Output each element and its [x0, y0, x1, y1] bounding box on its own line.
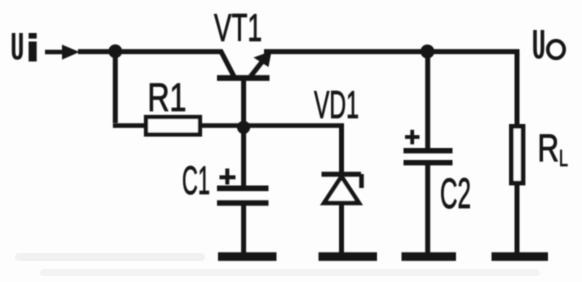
wire: R1 left stub — [113, 123, 147, 128]
node junction dot (base node) — [237, 121, 250, 134]
wire: VD1 to ground — [339, 203, 344, 253]
svg-text:L: L — [559, 145, 568, 171]
ground bar (VD1) — [319, 252, 378, 261]
wire: top left from arrow to transistor collector — [78, 49, 223, 54]
svg-text:VT1: VT1 — [214, 7, 262, 50]
resistor RL — [511, 126, 523, 183]
wire: output corner down to RL — [515, 49, 520, 126]
emitter slant — [251, 60, 264, 77]
anode triangle — [324, 177, 359, 204]
node junction dot (output node) — [420, 45, 434, 59]
wire: base node to VD1 branch — [244, 123, 344, 128]
wire: C2 drop from output node — [425, 52, 430, 151]
wire: C1 drop from base node to C1 top plate — [241, 127, 246, 187]
svg-text:R1: R1 — [148, 76, 187, 120]
input arrow — [45, 50, 62, 55]
wire: RL to ground — [515, 183, 520, 253]
collector slant — [221, 51, 235, 77]
base lead down — [241, 80, 246, 127]
capacitor C2 — [404, 151, 453, 163]
node junction dot (input node) — [108, 44, 122, 58]
plus sign C1 — [220, 169, 236, 185]
svg-text:C2: C2 — [440, 170, 471, 218]
wire: R1 right stub to base node — [200, 123, 246, 128]
zener tick — [359, 174, 364, 188]
ground bar (C1) — [218, 252, 277, 261]
ground bar (C2) — [402, 252, 457, 261]
cathode bar — [322, 172, 362, 177]
wire: left vertical down to R1 row — [113, 51, 118, 123]
node label Ui — [14, 33, 37, 62]
zener diode VD1 — [322, 174, 362, 203]
label RL — [538, 127, 569, 171]
base bar — [217, 75, 270, 81]
wire: top right from emitter to output corner — [264, 49, 519, 54]
emitter arrowhead — [254, 51, 272, 67]
plus sign C2 — [405, 130, 420, 145]
svg-text:C1: C1 — [182, 159, 210, 203]
wire: C1 to ground — [241, 204, 246, 253]
capacitor C1 — [217, 188, 269, 203]
svg-text:VD1: VD1 — [314, 84, 359, 127]
wire: VD1 vertical from branch to cathode bar — [339, 126, 344, 174]
svg-text:R: R — [538, 127, 560, 170]
wire: C2 to ground — [425, 164, 430, 253]
ground bar (RL) — [492, 252, 549, 261]
transistor VT1 — [217, 51, 272, 128]
resistor R1 — [146, 117, 200, 135]
node label Uo — [535, 30, 564, 58]
